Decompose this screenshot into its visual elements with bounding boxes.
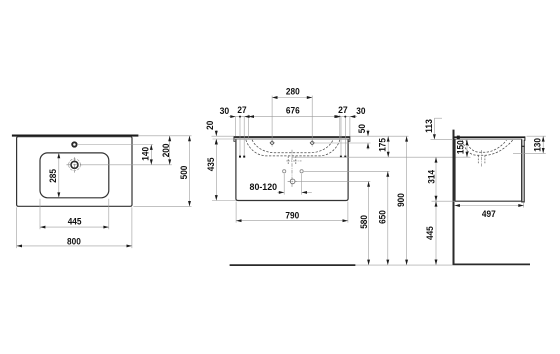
svg-text:800: 800 xyxy=(67,236,81,246)
svg-text:650: 650 xyxy=(377,210,387,224)
dimension 445 (cabinet bottom to floor) xyxy=(435,201,437,265)
svg-text:900: 900 xyxy=(396,193,406,207)
front view: slab right end lip xyxy=(348,136,350,141)
washbasin top view: back edge (wall side) thick bar xyxy=(12,135,138,137)
washbasin top view: ceramic outline 800x500 xyxy=(17,137,132,207)
right 30/27 cluster extension lines xyxy=(349,117,351,136)
side view: fixing bracket at wall xyxy=(457,136,460,140)
front view: bowl outer shell dashed curve xyxy=(246,140,340,156)
side view: floor xyxy=(453,263,530,265)
front view: right faucet hole marker xyxy=(310,141,314,145)
extension line cabinet bottom left xyxy=(212,200,236,202)
extension lines for 800 xyxy=(16,207,18,248)
dimension 50 (slab top to faucet) outside arrows xyxy=(367,130,369,137)
extension lines 676 xyxy=(248,115,250,139)
dimension 676 xyxy=(249,116,340,118)
front view: left faucet hole marker xyxy=(270,141,274,145)
dimension 650 xyxy=(387,171,389,265)
dimension 140 (overflow to faucet) xyxy=(150,145,152,165)
dimension 900 xyxy=(406,136,408,265)
extension lines for 445 xyxy=(39,199,41,230)
front view: cabinet body 790 wide xyxy=(236,139,348,200)
front view: slab underside line xyxy=(234,138,350,140)
side view: bowl inner rim dashed xyxy=(466,140,507,152)
side view: drain axis dash-dot xyxy=(481,150,483,167)
front view: drain centre marks xyxy=(291,150,293,187)
extension line from faucet hole xyxy=(81,164,172,166)
dimension 150 xyxy=(466,140,468,157)
floor line under front view xyxy=(230,264,356,266)
svg-text:30: 30 xyxy=(220,106,230,116)
front view: trap outlet circle with centerlines xyxy=(290,179,295,184)
svg-text:140: 140 xyxy=(141,147,151,161)
side view: bowl outer shell dashed xyxy=(463,140,514,155)
dimension 580 xyxy=(368,181,370,265)
extension line from overflow hole xyxy=(77,144,153,146)
svg-text:676: 676 xyxy=(286,106,300,116)
dimension 113 xyxy=(433,118,435,134)
front view: fixing holes (black squares) xyxy=(239,156,241,158)
dimension 200 (top edge to faucet) xyxy=(169,136,171,165)
front view: washbasin slab top edge xyxy=(234,136,350,138)
front view: slab left end lip xyxy=(234,136,235,141)
svg-text:280: 280 xyxy=(286,87,300,97)
side view: door front xyxy=(522,146,524,202)
dimension 790 xyxy=(236,220,348,222)
extension line cabinet bottom to left xyxy=(432,200,456,202)
side view: wall xyxy=(453,130,455,265)
extension line slab underside left xyxy=(213,138,234,140)
svg-text:435: 435 xyxy=(206,158,216,172)
extension lines 790 xyxy=(235,202,237,223)
side view: washbasin slab xyxy=(454,136,525,138)
extension line circles to 650 dim xyxy=(304,170,390,172)
extension line from faucet holes to right xyxy=(315,142,371,144)
svg-text:20: 20 xyxy=(205,121,215,130)
extension line top edge right xyxy=(139,135,192,137)
dimension 800 (basin width) xyxy=(17,245,132,247)
dimension 80-120 xyxy=(283,174,285,195)
svg-text:113: 113 xyxy=(424,119,434,133)
dimension 500 (basin depth) xyxy=(189,136,191,207)
svg-text:314: 314 xyxy=(427,169,437,184)
floor extension line to side view xyxy=(355,264,452,266)
front view: bowl inner rim dashed curve xyxy=(252,140,333,153)
dimension 497 xyxy=(455,205,524,207)
extension line trap to 580 dim xyxy=(298,180,371,182)
right 30/27 dimension marks xyxy=(340,116,357,118)
dimension 285 (bowl depth) xyxy=(58,153,60,198)
front view: wall drain circles xyxy=(283,170,286,173)
dimension 130 xyxy=(527,135,546,137)
shared drain height line to side view xyxy=(292,156,469,158)
svg-text:285: 285 xyxy=(48,169,58,183)
svg-text:580: 580 xyxy=(359,215,369,229)
extension line door front down xyxy=(523,202,525,207)
side view: cabinet carcass xyxy=(455,139,522,201)
overflow hole xyxy=(72,142,76,146)
faucet hole with centerlines xyxy=(71,161,78,168)
svg-text:27: 27 xyxy=(237,105,246,115)
svg-text:80-120: 80-120 xyxy=(250,182,278,192)
svg-text:50: 50 xyxy=(357,124,367,133)
svg-text:130: 130 xyxy=(532,138,542,152)
svg-text:30: 30 xyxy=(356,106,365,116)
svg-text:150: 150 xyxy=(456,140,466,154)
svg-text:790: 790 xyxy=(285,211,299,221)
dimension 445 (bowl width) xyxy=(40,226,109,228)
svg-text:200: 200 xyxy=(161,143,171,157)
left 30/27 cluster extension lines xyxy=(235,117,237,136)
svg-text:500: 500 xyxy=(179,166,189,180)
extension line bottom edge right xyxy=(133,205,191,207)
extension lines 280 from faucet holes xyxy=(271,96,273,140)
svg-text:445: 445 xyxy=(68,216,82,226)
dimension 20 (slab thickness) xyxy=(215,130,217,136)
left 30/27 dimension marks xyxy=(229,116,249,118)
side view: basin front lip xyxy=(522,136,525,146)
svg-text:497: 497 xyxy=(482,209,496,219)
dimension 175 xyxy=(387,136,389,157)
dimension 435 (cabinet height) xyxy=(215,139,217,201)
extension of slab top to right dims xyxy=(350,135,408,137)
svg-text:27: 27 xyxy=(338,105,348,115)
svg-text:175: 175 xyxy=(377,138,387,152)
svg-text:445: 445 xyxy=(425,226,435,240)
washbasin top view: inner bowl rounded rectangle 445x285 xyxy=(40,153,109,198)
dimension 314 xyxy=(435,157,437,201)
dimension 280 xyxy=(272,97,312,99)
